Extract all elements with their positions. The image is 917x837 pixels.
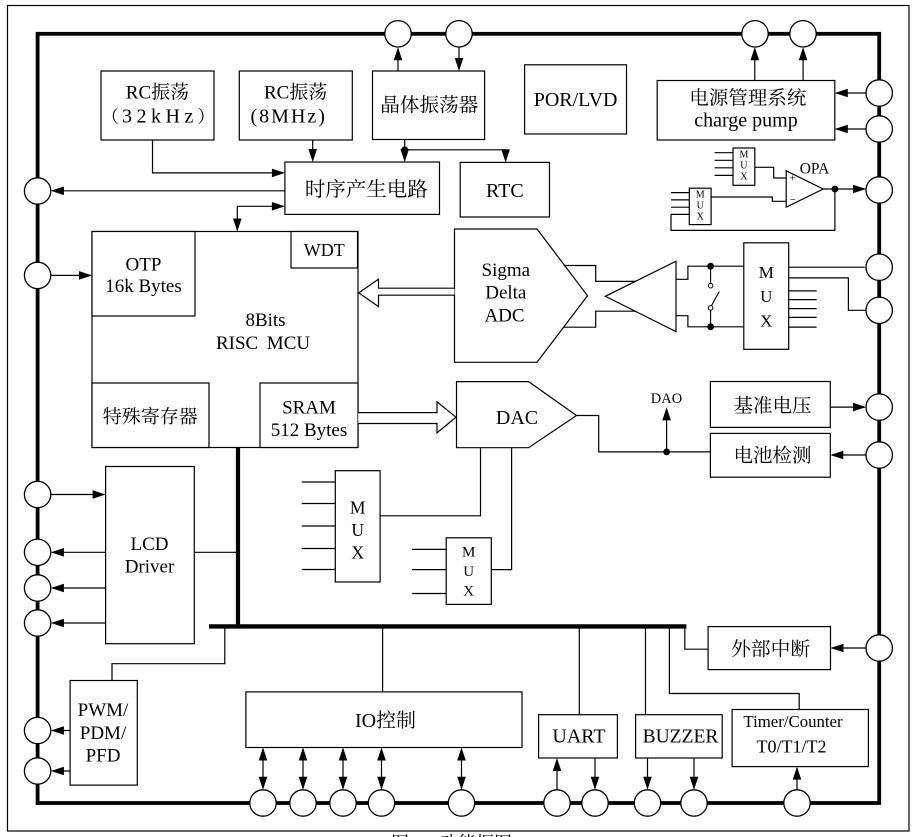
node switch upper: [707, 263, 714, 270]
wire left pin to LCD driver: [51, 494, 104, 496]
svg-text:Timer/Counter: Timer/Counter: [743, 712, 843, 731]
pin circles right edge: [866, 80, 892, 106]
block RC oscillator 8MHz: [239, 71, 352, 140]
svg-text:32kHz: 32kHz: [122, 106, 198, 128]
block OTP 16k bytes: [92, 232, 195, 317]
block UART: [539, 715, 618, 758]
svg-text:8Bits: 8Bits: [245, 310, 285, 331]
svg-text:Driver: Driver: [125, 557, 175, 578]
block LCD driver: [106, 467, 195, 644]
wire charge pump up to supply pin 2: [802, 49, 804, 81]
wire op-amp output to right pin: [823, 188, 865, 190]
wire junction to RTC: [405, 150, 506, 161]
svg-text:RC: RC: [126, 83, 151, 104]
svg-text:Delta: Delta: [485, 283, 527, 304]
svg-text:U: U: [740, 161, 748, 172]
wire ADC point to PGA lower stair: [564, 311, 636, 327]
wire switch node to ADC mux lower: [711, 326, 744, 328]
label timing generation circuit: [306, 179, 324, 198]
svg-text:U: U: [463, 564, 474, 580]
wire bus to IO control: [382, 628, 384, 692]
mux OPA input B: [689, 188, 711, 224]
wire PGA upper input stair to switch: [676, 266, 711, 279]
wire charge pump up to supply pin 1: [754, 49, 756, 81]
svg-text:X: X: [740, 172, 748, 183]
wire UART TX to pin: [594, 758, 596, 788]
block WDT: [291, 232, 358, 269]
svg-text:RTC: RTC: [486, 180, 524, 202]
block Timer/Counter: [732, 710, 868, 767]
svg-text:POR/LVD: POR/LVD: [534, 89, 618, 111]
svg-text:M: M: [759, 263, 774, 282]
block crystal oscillator: [373, 71, 485, 140]
pin circles top edge: [385, 21, 411, 47]
svg-text:ADC: ADC: [484, 306, 524, 327]
wire bus to BUZZER: [645, 628, 647, 715]
wire right pin to external interrupt: [832, 647, 866, 649]
block DAC pentagon: [457, 382, 577, 448]
svg-text:UART: UART: [552, 726, 605, 748]
wire ADC mux channel stubs: [789, 290, 817, 292]
wire pin to Timer/Counter input: [796, 768, 798, 790]
block BUZZER: [636, 715, 723, 758]
wire bus to Timer/Counter: [669, 628, 799, 710]
wire bus to PWM block: [112, 628, 225, 681]
wire input stubs of DAC mux 1: [302, 481, 336, 483]
svg-text:−: −: [790, 194, 796, 206]
svg-text:X: X: [463, 584, 474, 600]
label voltage reference: [734, 396, 752, 413]
wire right pin to charge pump input 2: [836, 128, 866, 130]
wire RC 8MHz osc to timing circuit: [312, 140, 314, 161]
svg-text:RC: RC: [264, 83, 289, 104]
wires PWM to left pins: [52, 730, 70, 732]
svg-text:IO: IO: [355, 710, 376, 732]
wire input stubs of OPA mux A: [715, 152, 733, 154]
svg-text:X: X: [697, 212, 705, 223]
block SRAM 512 bytes: [260, 383, 358, 448]
wire crystal osc to top pin XI: [397, 49, 399, 72]
caption figure title (clipped): [393, 834, 408, 837]
label crystal oscillator: [382, 95, 399, 113]
wire ADC mux to right pin AIN upper: [789, 266, 865, 268]
svg-text:M: M: [696, 190, 705, 201]
op-amp OPA triangle: [786, 171, 823, 207]
wire DAC output to battery detect: [577, 416, 711, 452]
hollow arrow SRAM data to DAC: [358, 402, 456, 433]
bidirectional arrows IO control to port pins: [262, 749, 264, 788]
wire timing circuit to left clock-out pin: [52, 190, 285, 192]
label battery detect: [736, 446, 752, 463]
mux DAC source 2: [446, 538, 491, 605]
label special registers: [103, 407, 121, 424]
wire top pin XO to crystal osc: [458, 47, 460, 70]
svg-text:U: U: [760, 287, 772, 306]
block RTC: [460, 162, 549, 217]
amplifier PGA triangle: [605, 261, 676, 331]
block special registers: [92, 383, 209, 448]
svg-text:SRAM: SRAM: [282, 398, 336, 419]
wire voltage reference to right pin: [830, 406, 865, 408]
svg-text:WDT: WDT: [304, 240, 345, 260]
svg-text:+: +: [790, 173, 796, 185]
wire ADC mux to right pin AIN lower: [789, 278, 866, 310]
svg-text:OPA: OPA: [800, 160, 830, 177]
block battery detect: [710, 433, 830, 477]
block timing generation circuit: [285, 162, 440, 214]
wire DAC mux 2 to DAC: [491, 448, 511, 570]
mux ADC input: [744, 243, 789, 349]
switch chopper between ADC inputs: [710, 266, 712, 283]
block RC oscillator 32kHz: [101, 71, 214, 140]
svg-text:DAO: DAO: [651, 391, 682, 407]
svg-text:512 Bytes: 512 Bytes: [271, 420, 348, 441]
block PWM/PDM/PFD: [70, 681, 137, 786]
pin circles left edge: [24, 178, 50, 204]
svg-text:16k Bytes: 16k Bytes: [105, 276, 182, 297]
wire pin to UART RX: [556, 760, 558, 790]
block 8bit RISC MCU: [92, 232, 358, 448]
svg-text:U: U: [697, 201, 705, 212]
wire RC 32kHz osc to timing circuit: [153, 140, 284, 173]
svg-text:X: X: [351, 543, 364, 563]
block IO control: [246, 692, 522, 748]
wires LCD driver to left segment pins: [52, 551, 105, 553]
wire bus to external interrupt: [685, 628, 708, 649]
mux DAC source 1: [335, 471, 380, 582]
node DAO junction: [663, 449, 670, 456]
wire timing circuit to MCU clock (two arrowheads): [237, 206, 283, 230]
wire LCD driver to bus: [194, 551, 238, 553]
wire DAC mux 1 to DAC: [380, 448, 480, 516]
svg-text:LCD: LCD: [131, 534, 169, 555]
wire right pin to charge pump input 1: [836, 92, 866, 94]
wire left pin to OTP: [51, 274, 91, 276]
wire bus to UART: [578, 628, 580, 715]
svg-text:DAC: DAC: [496, 407, 538, 429]
block POR/LVD: [525, 65, 627, 134]
pin circles bottom edge: [250, 790, 276, 816]
node junction below crystal osc: [401, 146, 408, 153]
svg-text:BUZZER: BUZZER: [643, 727, 719, 748]
svg-text:X: X: [760, 312, 772, 331]
block power management charge pump: [657, 81, 835, 141]
svg-text:T0/T1/T2: T0/T1/T2: [757, 737, 827, 757]
wire OPA mux B to op-amp - input: [711, 197, 786, 201]
wire ADC point to PGA upper stair: [564, 266, 636, 282]
hollow arrow ADC result to MCU: [359, 279, 455, 307]
wire PGA lower input stair to switch: [676, 316, 711, 327]
svg-text:U: U: [351, 520, 364, 540]
wire op-amp feedback to mux B stub: [671, 189, 835, 230]
mux OPA input A: [733, 148, 755, 185]
wire right pin to battery detect: [832, 454, 866, 456]
svg-text:(8MHz): (8MHz): [251, 106, 327, 128]
wire DAO output arrow: [666, 409, 668, 452]
svg-text:MCU: MCU: [267, 333, 311, 354]
block external interrupt: [708, 627, 830, 670]
wire input stubs of DAC mux 2: [412, 548, 446, 550]
svg-text:PWM/: PWM/: [78, 700, 129, 721]
svg-text:M: M: [739, 150, 748, 161]
wire switch node to ADC mux upper: [711, 265, 744, 267]
label external interrupt: [732, 639, 750, 657]
wires BUZZER outputs to pins: [647, 758, 649, 788]
svg-text:Sigma: Sigma: [482, 260, 531, 281]
block voltage reference: [710, 382, 830, 428]
svg-text:RISC: RISC: [216, 333, 258, 354]
svg-text:M: M: [462, 545, 475, 561]
node switch lower: [707, 323, 714, 330]
svg-text:M: M: [350, 497, 366, 517]
node op-amp output junction: [832, 186, 839, 193]
thick data bus vertical from MCU: [236, 448, 240, 627]
label power management system / charge pump: [692, 88, 708, 105]
svg-text:charge pump: charge pump: [694, 110, 798, 132]
thick data bus horizontal: [209, 624, 686, 628]
wire OPA mux A to op-amp + input: [755, 167, 786, 178]
svg-text:PDM/: PDM/: [80, 723, 127, 744]
block Sigma Delta ADC pentagon: [455, 229, 588, 362]
wire input stubs of OPA mux B: [671, 192, 689, 194]
wire crystal osc down to timing circuit: [404, 140, 406, 161]
svg-text:OTP: OTP: [126, 254, 162, 275]
svg-text:PFD: PFD: [86, 746, 121, 767]
